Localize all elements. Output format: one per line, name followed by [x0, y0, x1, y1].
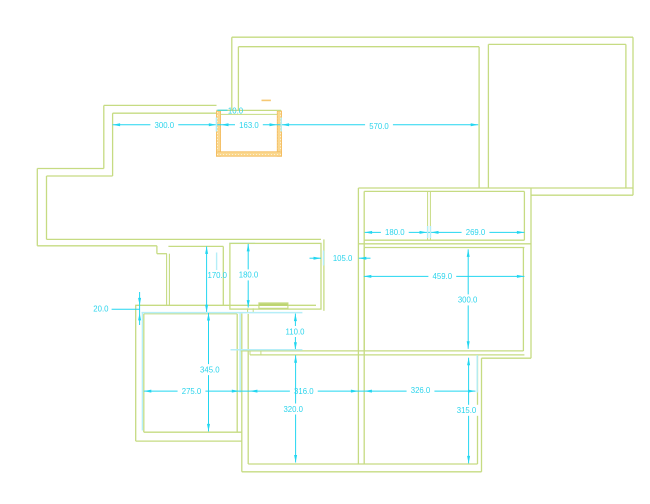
- svg-text:300.0: 300.0: [155, 121, 175, 130]
- wall: upper-left horizontal inner: [113, 112, 217, 114]
- dim text 570.0: [365, 121, 393, 132]
- wall: big right room inner left: [363, 248, 365, 352]
- svg-text:316.0: 316.0: [294, 387, 314, 396]
- dim 275.0 left arrow: [144, 390, 152, 393]
- wall: big right room inner top: [364, 247, 524, 249]
- dim 163.0 right arrow: [270, 123, 278, 126]
- dim 105.0 left line: [310, 257, 322, 259]
- dim line 345.0: [208, 313, 210, 431]
- wall: closet top edge: [168, 245, 223, 247]
- dim 300.0 right bottom arrow: [467, 341, 470, 349]
- dim 345.0 top arrow: [207, 313, 210, 321]
- dim 105.0 right line: [359, 257, 371, 259]
- wall: between left and bottom-middle rooms west: [241, 314, 243, 472]
- orange dash mark: [262, 99, 271, 101]
- dim 570.0 right arrow: [471, 123, 479, 126]
- dim 315.0 bottom arrow: [467, 456, 470, 464]
- dim text 275.0: [178, 386, 206, 397]
- wall: small room 269 right inner: [523, 191, 525, 240]
- wall: bottom-middle room bottom inner: [248, 463, 477, 465]
- svg-text:570.0: 570.0: [369, 122, 389, 131]
- svg-text:459.0: 459.0: [433, 272, 453, 281]
- wall: left room outer left: [135, 305, 137, 441]
- wall: small rooms inner top: [364, 190, 524, 192]
- wall: left room right inner: [236, 314, 238, 432]
- dim 170.0 bottom arrow: [205, 305, 208, 313]
- wall: bottom-middle top wall upper line: [240, 350, 523, 352]
- dim 180.0 right arrow: [420, 231, 428, 234]
- dim text 320.0: [279, 404, 307, 415]
- dim text 180.0 mid: [235, 269, 263, 280]
- wall: small rooms divider east: [429, 191, 431, 240]
- wall: top-right room inner top: [488, 43, 626, 45]
- dim text 315.0: [453, 405, 481, 416]
- wall: upper-left vertical inner: [112, 113, 114, 176]
- wall: far-left vertical inner: [46, 176, 48, 239]
- wall: closet right edge: [222, 246, 224, 305]
- wall: divider bottom rooms east line: [363, 191, 365, 464]
- dim 105.0 left arrow: [314, 257, 322, 260]
- dim 170.0 top arrow: [205, 246, 208, 254]
- dim 300.0 left arrow: [113, 123, 121, 126]
- wall: outer bottom edge: [242, 471, 482, 473]
- dim chain line y391: [144, 390, 476, 392]
- wall: band below small rooms upper: [358, 243, 531, 245]
- dim 459.0 left arrow: [364, 275, 372, 278]
- ext line at x323: [323, 251, 325, 266]
- masonry box bottom band: [217, 152, 282, 156]
- svg-text:20.0: 20.0: [93, 305, 109, 314]
- masonry box top olive line upper: [217, 109, 282, 111]
- svg-text:180.0: 180.0: [385, 228, 405, 237]
- dim 320.0 bottom arrow: [294, 455, 297, 463]
- dim line 300.0 right: [467, 249, 469, 348]
- dim 163.0 left arrow: [221, 123, 229, 126]
- dim chain line y125: [113, 124, 479, 126]
- wall: step down vertical at x157: [156, 246, 158, 254]
- dim 10.0 leader dash: [218, 109, 228, 111]
- wall: corridor left wall: [166, 254, 168, 306]
- dim line 180.0 mid: [247, 244, 249, 308]
- wall: divider top rooms right line: [487, 44, 489, 188]
- wall: top-right room outer bottom: [531, 194, 633, 196]
- room: middle room outline: [230, 243, 321, 309]
- dim text 345.0: [196, 364, 224, 375]
- dim line 180/269: [365, 231, 525, 233]
- svg-text:300.0: 300.0: [458, 296, 478, 305]
- ext pale over divider west: [427, 226, 429, 238]
- masonry box left band: [217, 111, 221, 156]
- svg-text:163.0: 163.0: [239, 121, 259, 130]
- dim text 316.0: [290, 386, 318, 397]
- wall: outer step to the right y358: [482, 357, 532, 359]
- dim 180.0 left arrow: [365, 231, 373, 234]
- pale ext vertical x142.4: [141, 313, 143, 431]
- wall: long horizontal y305: [135, 304, 316, 306]
- wall: left step horizontal inner: [47, 175, 113, 177]
- wall: divider bottom rooms west line: [357, 188, 359, 464]
- svg-text:345.0: 345.0: [200, 365, 220, 374]
- wall: between left and bottom-middle rooms east: [247, 314, 249, 464]
- dim 326.0 left arrow: [364, 390, 372, 393]
- pale ext vertical x477.2: [476, 355, 478, 393]
- dim 20.0 vertical: [139, 292, 141, 325]
- dim line 170.0: [206, 246, 208, 312]
- dim 316.0 right arrow: [351, 390, 359, 393]
- dim 180.0 mid bottom arrow: [247, 300, 250, 308]
- dim 105.0 right arrow: [359, 257, 367, 260]
- wall: top outer edge: [232, 36, 633, 38]
- wall: top-left room outer left: [231, 37, 233, 111]
- svg-text:315.0: 315.0: [457, 406, 477, 415]
- dim 20.0 lower arrow: [138, 313, 141, 321]
- svg-text:269.0: 269.0: [466, 228, 486, 237]
- dim 110.0 bottom arrow: [294, 342, 297, 350]
- door sill box: [259, 303, 288, 308]
- wall: top-left room inner top: [238, 46, 479, 48]
- svg-text:110.0: 110.0: [286, 327, 306, 336]
- dim 315.0 top arrow: [467, 358, 470, 366]
- tick below sill 1: [247, 308, 249, 312]
- wall: bottom-right room right outer: [481, 358, 483, 472]
- pale ext horizontal y349.8: [231, 349, 303, 351]
- dim text 163.0: [235, 120, 263, 131]
- wall: left room inner top olive: [144, 313, 237, 315]
- wall: door connector at x261: [260, 351, 262, 355]
- dim line 320.0: [295, 355, 297, 462]
- masonry box right band: [277, 111, 281, 156]
- svg-text:326.0: 326.0: [411, 386, 431, 395]
- svg-text:10.0: 10.0: [228, 106, 244, 115]
- dim text 326.0: [407, 385, 435, 396]
- pale ext on middle room top: [229, 242, 255, 244]
- dim 180.0 mid top arrow: [247, 244, 250, 252]
- wall: left room outer bottom: [136, 440, 242, 442]
- wall: bottom-right room right inner: [477, 355, 479, 464]
- wall: small rooms divider west: [427, 191, 429, 240]
- dim 20.0 upper arrow: [138, 298, 141, 306]
- wall: left step horizontal outer: [37, 168, 104, 170]
- wall: upper-left horizontal outer: [104, 104, 217, 106]
- wall: top-right room inner right: [625, 44, 627, 188]
- tick below sill 2: [252, 308, 254, 312]
- svg-text:170.0: 170.0: [208, 271, 228, 280]
- svg-text:180.0: 180.0: [239, 271, 259, 280]
- dim text 180.0 room: [381, 227, 409, 238]
- pale leader near 170 text: [216, 253, 218, 271]
- dim line 459.0: [364, 275, 525, 277]
- dim 269.0 left arrow: [431, 231, 439, 234]
- dim 20.0 leader: [112, 308, 140, 310]
- dim 326.0 right arrow: [468, 390, 476, 393]
- wall: long bottom of hall inner: [47, 238, 322, 240]
- masonry box top olive line lower: [221, 113, 278, 115]
- dim 300.0 right top arrow: [467, 249, 470, 257]
- wall: corridor left wall inner: [168, 254, 170, 306]
- wall: divider top rooms left line: [478, 47, 480, 188]
- wall: door connector at x250: [249, 351, 251, 355]
- dim 316.0 left arrow: [250, 390, 258, 393]
- wall: left room left inner: [143, 314, 145, 432]
- wall: right structure top line: [358, 187, 633, 189]
- dim text 459.0: [428, 271, 456, 282]
- wall: top-left room inner left: [237, 47, 239, 111]
- dim 275.0 right arrow: [232, 390, 240, 393]
- dim 570.0 left arrow: [282, 123, 290, 126]
- dim 320.0 top arrow: [294, 355, 297, 363]
- door sill thick top: [259, 304, 288, 306]
- svg-text:320.0: 320.0: [283, 405, 303, 414]
- wall: right structure outer right: [530, 188, 532, 358]
- svg-text:275.0: 275.0: [182, 387, 202, 396]
- dim line 110.0: [294, 314, 296, 350]
- ext line at box left: [215, 118, 217, 132]
- wall: big right room inner right: [522, 248, 524, 352]
- dim line 315.0: [468, 358, 470, 464]
- dim text 269.0: [462, 227, 490, 238]
- wall: top-right room outer right: [632, 37, 634, 195]
- dim text 300.0 right: [454, 294, 482, 305]
- pale ext horizontal y312.6: [142, 312, 303, 314]
- dim 345.0 bottom arrow: [207, 424, 210, 432]
- wall: step horizontal y254: [157, 253, 167, 255]
- dim text 300.0 top: [150, 120, 178, 131]
- dim 110.0 top arrow: [294, 314, 297, 322]
- dim text 110.0: [281, 326, 309, 337]
- wall: far-left vertical outer: [36, 169, 38, 246]
- svg-text:105.0: 105.0: [333, 254, 353, 263]
- wall: bottom-middle top wall lower line: [250, 354, 524, 356]
- ext pale over divider east: [430, 226, 432, 238]
- wall: upper-left vertical outer: [103, 105, 105, 168]
- dim 269.0 right arrow: [517, 231, 525, 234]
- dim 300.0 right arrow: [209, 123, 217, 126]
- wall: small rooms inner bottom: [364, 239, 524, 241]
- ext line at box right: [280, 118, 282, 132]
- pale ext vertical x240.1: [239, 313, 241, 393]
- dim 459.0 right arrow: [517, 275, 525, 278]
- wall: left room bottom inner: [144, 431, 242, 433]
- wall: middle room outer right: [323, 239, 325, 310]
- wall: long bottom of hall outer: [37, 245, 157, 247]
